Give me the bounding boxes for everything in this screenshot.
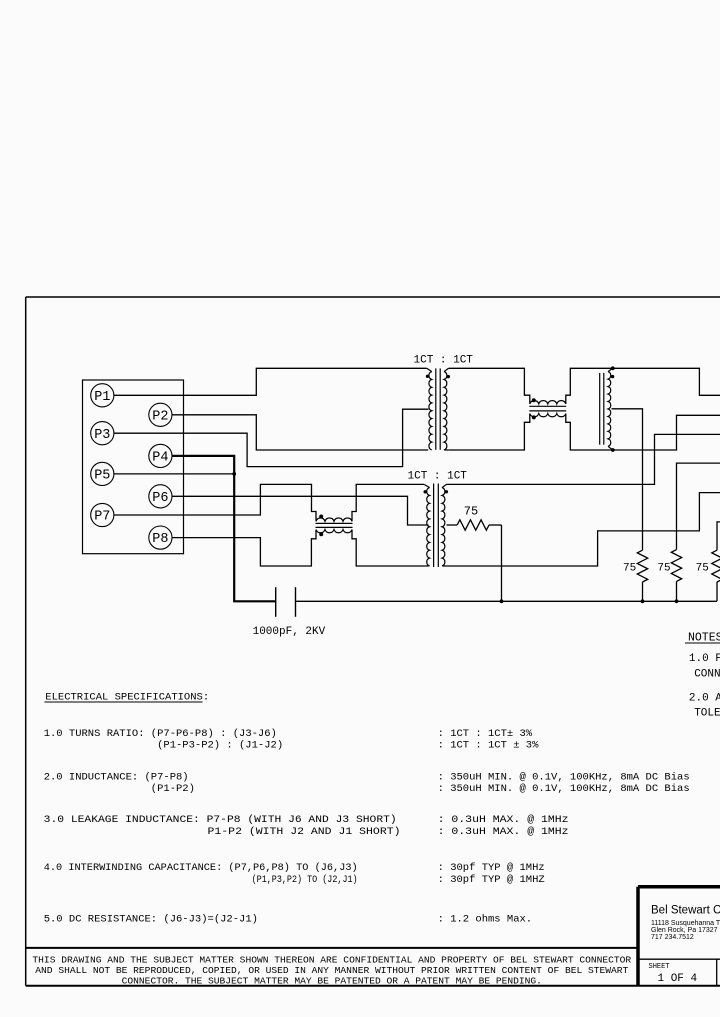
svg-text:1.0 TURNS RATIO: (P7-P6-P8) :: 1.0 TURNS RATIO: (P7-P6-P8) : (J3-J6): [44, 728, 277, 740]
svg-text:CONN: CONN: [694, 669, 720, 681]
drawing frame left border: [25, 297, 27, 986]
transformer T3 winding: [608, 368, 613, 371]
pin P5: [91, 462, 114, 485]
junction P5/P4 net: [232, 472, 236, 476]
svg-text:: 1.2 ohms Max.: : 1.2 ohms Max.: [438, 914, 533, 926]
transformer T3 polarity dot: [611, 375, 614, 378]
ground bus wire: [296, 600, 718, 602]
svg-text:P8: P8: [152, 532, 168, 547]
wire P5 to P4 net: [114, 473, 234, 475]
svg-text:P1: P1: [94, 390, 110, 405]
choke L2 core: [316, 522, 353, 524]
svg-text:: 1CT : 1CT ± 3%: : 1CT : 1CT ± 3%: [438, 740, 540, 752]
svg-text:Bel Stewart Connector: Bel Stewart Connector: [651, 905, 720, 917]
svg-text:3.0 LEAKAGE INDUCTANCE: P7-P: 3.0 LEAKAGE INDUCTANCE: P7-P8 (WITH J6 A…: [44, 814, 397, 826]
svg-text:: 30pf TYP @ 1MHz: : 30pf TYP @ 1MHz: [438, 862, 545, 874]
wire T1 secondary bottom to choke L1: [449, 414, 530, 451]
choke L1 core: [529, 405, 566, 407]
transformer T1 primary winding: [427, 368, 432, 371]
wire choke L1 bottom to T3 bottom rail: [566, 414, 720, 451]
svg-text:: 0.3uH MAX. @ 1MHz: : 0.3uH MAX. @ 1MHz: [438, 814, 569, 826]
transformer T3 core: [599, 373, 601, 445]
transformer T2 secondary polarity dot: [445, 490, 448, 493]
wire T2 secondary top to right edge: [447, 434, 720, 484]
resistor R3 75: [712, 550, 720, 582]
svg-text:CONNECTOR. THE SUBJECT MATTER: CONNECTOR. THE SUBJECT MATTER MAY BE PAT…: [122, 975, 542, 986]
transformer T2 core: [433, 484, 435, 568]
wire choke L2 top to T2 primary top: [352, 484, 424, 521]
svg-text:AND SHALL NOT BE REPRODUCED, C: AND SHALL NOT BE REPRODUCED, COPIED, OR …: [35, 965, 628, 976]
svg-text:SHEET: SHEET: [649, 963, 670, 971]
resistor R4 75 on T2 center tap: [447, 524, 458, 526]
wire P1 to T1 primary top: [114, 368, 427, 395]
wire T2 secondary bottom to right edge: [447, 493, 720, 566]
svg-text:: 1CT : 1CT± 3%: : 1CT : 1CT± 3%: [438, 728, 533, 740]
wire P7 to choke L2 top winding: [114, 484, 316, 521]
svg-text:2.0 INDUCTANCE: (P7-P8): 2.0 INDUCTANCE: (P7-P8): [44, 771, 189, 783]
title block outline (thick): [638, 885, 720, 889]
wire T1 secondary top to choke L1: [449, 368, 530, 404]
junction R1 at bus: [641, 599, 645, 603]
svg-text:11118 Susquehanna Trail: 11118 Susquehanna Trail: [651, 920, 720, 927]
svg-text:: 30pf TYP @ 1MHZ: : 30pf TYP @ 1MHZ: [438, 874, 545, 886]
svg-text:TOLE: TOLE: [694, 708, 720, 720]
choke L1 top winding: [530, 401, 566, 404]
svg-text:75: 75: [623, 562, 636, 574]
svg-text:P1-P2 (WITH J2 AND J1 SHORT): P1-P2 (WITH J2 AND J1 SHORT): [208, 826, 401, 838]
transformer T1 secondary winding: [444, 368, 449, 371]
svg-text:P6: P6: [152, 491, 168, 506]
wire P3 to T1 primary center tap: [114, 409, 429, 466]
svg-text:(P1-P3-P2) : (J1-J2): (P1-P3-P2) : (J1-J2): [157, 740, 283, 752]
junction R2 at bus: [675, 599, 679, 603]
pin P3: [91, 422, 114, 445]
svg-text:5.0 DC RESISTANCE: (J6-J3)=(J2: 5.0 DC RESISTANCE: (J6-J3)=(J2-J1): [44, 914, 258, 926]
wire choke L2 bottom to T2 primary bottom: [352, 530, 424, 567]
svg-text:P2: P2: [152, 409, 168, 424]
connector block outline: [83, 380, 184, 554]
svg-text:: 350uH MIN. @ 0.1V, 100KHz, 8: : 350uH MIN. @ 0.1V, 100KHz, 8mA DC Bias: [438, 771, 690, 783]
pin P1: [91, 384, 114, 407]
transformer T2 primary winding: [424, 484, 430, 487]
choke L1 top winding polarity dot: [532, 398, 536, 402]
svg-text:P5: P5: [94, 469, 110, 484]
wire P4 down to capacitor (thick): [172, 456, 276, 601]
svg-text:: 0.3uH MAX. @ 1MHz: : 0.3uH MAX. @ 1MHz: [438, 826, 569, 838]
svg-text:P7: P7: [94, 510, 110, 525]
drawing frame top border: [26, 296, 720, 298]
wire resistor R4 to ground bus: [501, 525, 503, 601]
svg-text:: 350uH MIN. @ 0.1V, 100KHz, 8: : 350uH MIN. @ 0.1V, 100KHz, 8mA DC Bias: [438, 783, 690, 795]
wire T3 center tap to resistor R1: [612, 409, 643, 550]
choke L2 bottom winding polarity dot: [319, 532, 323, 536]
wire right edge to resistor R2: [677, 463, 720, 549]
wire P6 to T2 primary center tap: [172, 496, 429, 525]
svg-text:2.0 AL: 2.0 AL: [689, 692, 720, 704]
pin P2: [149, 403, 172, 426]
svg-text:P3: P3: [94, 428, 110, 443]
choke L2 top winding: [316, 518, 352, 521]
svg-text:1 OF 4: 1 OF 4: [658, 973, 698, 985]
wire right edge to resistor R3: [717, 522, 720, 550]
wire P2 to T1 primary bottom: [172, 415, 428, 450]
junction R4 at bus: [500, 599, 504, 603]
junction T3 bottom: [611, 448, 615, 452]
svg-text:1CT : 1CT: 1CT : 1CT: [408, 471, 468, 483]
choke L1 bottom winding: [530, 414, 566, 417]
wire choke L1 top to T3 top rail: [566, 368, 720, 404]
svg-text:P4: P4: [152, 451, 168, 466]
resistor R1 75: [637, 550, 647, 582]
capacitor C1 plates: [275, 587, 277, 617]
pin P4: [149, 444, 172, 467]
svg-text:75: 75: [464, 505, 478, 519]
svg-text:1000pF, 2KV: 1000pF, 2KV: [253, 626, 326, 638]
svg-text:THIS DRAWING AND THE SUBJECT M: THIS DRAWING AND THE SUBJECT MATTER SHOW…: [32, 955, 631, 966]
svg-text:4.0 INTERWINDING CAPACITANCE:: 4.0 INTERWINDING CAPACITANCE: (P7,P6,P8)…: [44, 862, 358, 874]
confidential box top border: [26, 947, 638, 949]
wire P8 to choke L2 bottom winding: [172, 530, 316, 567]
svg-text:(P1-P2): (P1-P2): [151, 783, 195, 795]
transformer T1 primary polarity dot: [426, 375, 429, 378]
choke L2 top winding polarity dot: [319, 515, 323, 519]
transformer T1 secondary polarity dot: [447, 375, 450, 378]
junction T3 top: [611, 366, 615, 370]
svg-text:75: 75: [657, 562, 670, 574]
svg-text:(P1,P3,P2) TO (J2,J1): (P1,P3,P2) TO (J2,J1): [252, 874, 358, 886]
svg-text:1.0 FO: 1.0 FO: [689, 653, 720, 665]
choke L2 bottom winding: [316, 530, 352, 533]
pin P7: [91, 503, 114, 526]
svg-text:Glen Rock, Pa 17327: Glen Rock, Pa 17327: [651, 927, 718, 934]
svg-text:1CT : 1CT: 1CT : 1CT: [414, 355, 474, 367]
sheet cell divider: [638, 958, 720, 960]
drawing frame bottom border: [26, 985, 720, 987]
transformer T2 secondary winding: [442, 484, 447, 487]
pin P6: [149, 485, 172, 508]
resistor R2 75: [671, 550, 681, 582]
pin P8: [149, 526, 172, 549]
svg-text:717 234.7512: 717 234.7512: [651, 934, 694, 941]
choke L1 bottom winding polarity dot: [532, 415, 536, 419]
svg-text:75: 75: [696, 562, 709, 574]
transformer T2 primary polarity dot: [424, 490, 427, 493]
transformer T1 core: [435, 368, 437, 449]
